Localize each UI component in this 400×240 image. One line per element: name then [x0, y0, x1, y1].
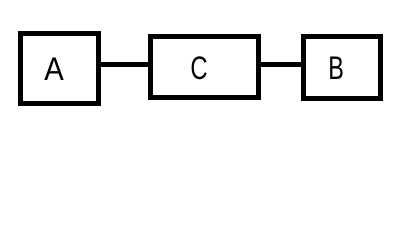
block C — [148, 34, 261, 100]
wire A-C — [101, 62, 148, 67]
label A — [44, 53, 63, 85]
label B — [328, 52, 344, 84]
wire C-B — [261, 62, 301, 67]
block A — [18, 31, 101, 106]
label C — [190, 52, 207, 84]
block B — [301, 34, 383, 101]
